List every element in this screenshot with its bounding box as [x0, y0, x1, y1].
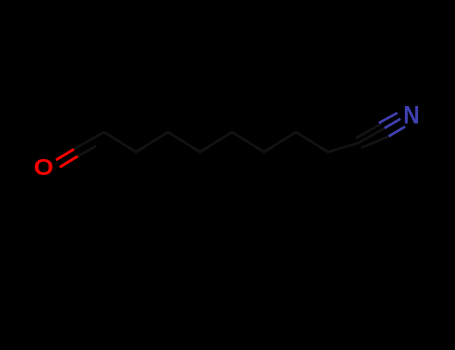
nitrile: blue triple bond half-lines [379, 113, 405, 136]
bond O=C upper line (red half) [56, 149, 74, 160]
svg-text:O: O [34, 155, 54, 181]
svg-text:N: N [403, 101, 419, 129]
bond C#N bottom line (blue half) [389, 127, 406, 137]
wire: C=O dark half inner line [78, 146, 96, 156]
aldehyde O: red double bond half-lines [56, 149, 78, 167]
wire: C=O dark half main line [74, 132, 104, 149]
bond C#N top line (blue half) [379, 113, 398, 123]
wire: chain zigzag C1-C8 [104, 132, 359, 152]
carbon chain skeleton (near-invisible dark) [74, 123, 389, 156]
bond O=C lower line (red half) [60, 156, 78, 167]
wire: C#N dark halves [356, 123, 389, 147]
bond C#N middle line (blue half) [385, 119, 401, 128]
